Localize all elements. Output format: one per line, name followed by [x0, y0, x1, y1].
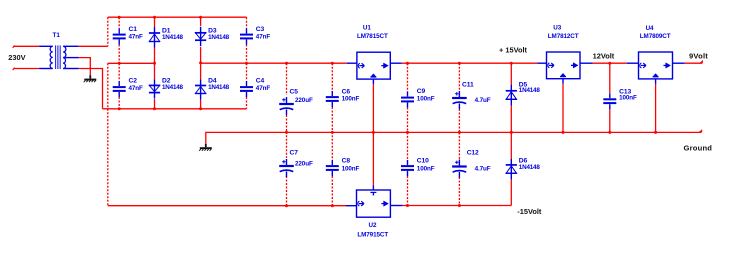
svg-text:1N4148: 1N4148	[162, 84, 184, 91]
diode D2 1N4148	[149, 78, 184, 99]
wire D3 top lead	[200, 17, 202, 26]
wire left vertical to U2 rail	[107, 63, 109, 205]
wire positive rail to U1	[201, 62, 347, 64]
svg-text:C9: C9	[417, 88, 426, 95]
svg-text:100nF: 100nF	[342, 95, 360, 102]
wire C2 bottom lead	[118, 97, 120, 109]
wire D3 bottom lead	[200, 47, 202, 63]
wire 230V line top	[13, 45, 39, 47]
capacitor C10 100nF	[401, 157, 435, 176]
wire D4 bottom lead	[200, 100, 202, 109]
svg-text:C12: C12	[467, 150, 479, 157]
wire U2 gnd pin	[372, 132, 374, 185]
wire D6 top lead	[510, 132, 512, 159]
junction +15V rail / C9	[406, 62, 409, 65]
svg-text:C8: C8	[342, 157, 351, 164]
svg-text:U2: U2	[369, 222, 377, 229]
transformer T1	[39, 32, 79, 69]
wire center tap	[79, 58, 91, 76]
junction positive rail / C5	[285, 62, 288, 65]
capacitor C5 220uF (electrolytic)	[279, 89, 313, 116]
junction ground rail / D5-D6	[510, 131, 513, 134]
junction positive rail / C3-C4	[245, 62, 248, 65]
capacitor C8 100nF	[326, 157, 360, 176]
wire C5 bottom lead	[286, 115, 288, 132]
wire left vertical upper	[107, 17, 109, 46]
svg-text:LM7809CT: LM7809CT	[640, 33, 671, 40]
voltage regulator U3 LM7812CT	[547, 52, 581, 79]
capacitor C6 100nF	[326, 88, 360, 107]
capacitor C4 47nF	[240, 78, 270, 97]
svg-text:47nF: 47nF	[129, 33, 144, 40]
junction top rail / D3	[199, 16, 202, 19]
wire C11 bottom lead	[458, 109, 460, 132]
svg-text:1N4148: 1N4148	[208, 84, 230, 91]
svg-text:1N4148: 1N4148	[162, 34, 184, 41]
svg-text:4.7uF: 4.7uF	[475, 165, 491, 172]
wire U1 input stub	[347, 62, 357, 64]
wire D5 top lead	[510, 63, 512, 85]
wire C3 bottom lead	[246, 45, 248, 64]
wire C8 top lead	[331, 132, 333, 160]
wire D6 bottom lead	[510, 179, 512, 206]
wire C7 top lead	[286, 132, 288, 158]
wire mid rail left (negative node)	[108, 62, 155, 64]
svg-text:C1: C1	[129, 26, 138, 33]
wire D1 bottom lead	[154, 48, 156, 64]
wire ground rail	[206, 132, 702, 143]
svg-text:LM7815CT: LM7815CT	[357, 33, 388, 40]
wire C13 top lead	[609, 63, 611, 93]
junction mid-left / C1-C2	[118, 62, 121, 65]
capacitor C13 100nF	[603, 88, 637, 109]
svg-text:C5: C5	[290, 89, 299, 96]
junction positive rail / C6	[331, 62, 334, 65]
ground (main rail)	[199, 144, 212, 151]
wire U4 gnd pin	[655, 84, 657, 132]
svg-text:C11: C11	[462, 82, 474, 89]
svg-text:C3: C3	[256, 26, 265, 33]
wire D5 bottom lead	[510, 105, 512, 132]
wire U4 input stub	[627, 62, 639, 64]
junction ground rail / C11-C12	[458, 131, 461, 134]
wire C10 top lead	[407, 132, 409, 160]
svg-text:4.7uF: 4.7uF	[475, 97, 491, 104]
diode D4 1N4148	[195, 78, 230, 100]
wire +15V rail	[402, 62, 538, 64]
wire U1 gnd pin	[372, 84, 374, 132]
wire U3 input stub	[537, 62, 546, 64]
svg-text:1N4148: 1N4148	[519, 164, 541, 171]
junction top rail / C1	[118, 16, 121, 19]
svg-text:230V: 230V	[8, 53, 25, 62]
voltage regulator U1 LM7815CT	[357, 52, 390, 79]
junction -V rail / C8	[331, 204, 334, 207]
wire C4 top lead	[246, 63, 248, 81]
voltage regulator U2 LM7915CT	[357, 190, 391, 217]
capacitor C12 4.7uF (electrolytic)	[452, 150, 491, 178]
svg-text:Ground: Ground	[684, 143, 713, 152]
svg-text:9Volt: 9Volt	[689, 52, 708, 61]
junction -15V rail / C10	[406, 204, 409, 207]
junction ground rail / C5-C7	[285, 131, 288, 134]
wire D1 top lead	[154, 17, 156, 27]
voltage regulator U4 LM7809CT	[639, 52, 673, 79]
wire C9 top lead	[407, 63, 409, 91]
wire C1 top lead	[118, 17, 120, 28]
capacitor C11 4.7uF (electrolytic)	[452, 82, 491, 110]
junction 12V rail / C13	[608, 62, 611, 65]
junction ground rail / C6-C8	[331, 131, 334, 134]
wire top AC rail	[108, 16, 247, 18]
svg-text:100nF: 100nF	[342, 165, 360, 172]
junction +15V rail / D5	[510, 62, 513, 65]
svg-text:U1: U1	[363, 25, 371, 32]
wire C3 top lead	[246, 17, 248, 28]
wire secondary bottom lead	[79, 69, 103, 109]
junction -15V rail / C12	[458, 204, 461, 207]
diode D1 1N4148	[149, 27, 184, 48]
svg-text:47nF: 47nF	[256, 33, 271, 40]
wire 9V output	[685, 62, 703, 64]
junction ground rail / U3 gnd	[562, 131, 565, 134]
wire C13 bottom lead	[609, 109, 611, 132]
svg-text:100nF: 100nF	[619, 95, 637, 102]
junction bottom rail / C2	[118, 107, 121, 110]
wire C10 bottom lead	[407, 176, 409, 206]
junction bottom rail / D2	[153, 107, 156, 110]
svg-text:12Volt: 12Volt	[593, 51, 615, 60]
wire U3 gnd stub	[562, 79, 564, 84]
junction mid-right / D3-D4	[199, 61, 202, 64]
svg-text:-15Volt: -15Volt	[517, 207, 542, 216]
svg-text:U4: U4	[646, 25, 654, 32]
wire C8 bottom lead	[331, 176, 333, 206]
wire C12 top lead	[458, 132, 460, 160]
svg-text:47nF: 47nF	[129, 85, 144, 92]
diode D3 1N4148	[195, 27, 230, 46]
svg-text:+ 15Volt: + 15Volt	[499, 45, 528, 54]
wire C7 bottom lead	[286, 176, 288, 206]
svg-text:C2: C2	[129, 78, 138, 85]
wire C12 bottom lead	[458, 177, 460, 206]
diode D6 1N4148	[506, 157, 541, 179]
wire secondary top lead	[79, 45, 108, 47]
svg-text:47nF: 47nF	[256, 85, 271, 92]
wire C6 bottom lead	[331, 107, 333, 132]
junction ground rail / C13	[608, 131, 611, 134]
junction bottom rail / D4	[199, 107, 202, 110]
svg-text:1N4148: 1N4148	[208, 34, 230, 41]
svg-text:C7: C7	[290, 150, 299, 157]
svg-text:T1: T1	[53, 32, 61, 39]
wire U2 input stub	[346, 205, 357, 207]
wire U4 output stub	[673, 62, 685, 64]
diode D5 1N4148	[506, 81, 541, 105]
capacitor C2 47nF	[113, 78, 143, 97]
wire C11 top lead	[458, 63, 460, 92]
junction ground rail / U1/U2 gnd	[372, 131, 375, 134]
svg-text:100nF: 100nF	[417, 165, 435, 172]
wire C6 top lead	[331, 63, 333, 91]
svg-text:U3: U3	[553, 25, 561, 32]
wire 230V line bottom	[13, 68, 39, 70]
svg-text:LM7812CT: LM7812CT	[548, 33, 579, 40]
wire bottom AC rail	[103, 108, 247, 110]
wire C5 top lead	[286, 63, 288, 95]
capacitor C1 47nF	[113, 26, 143, 45]
ground (center tap)	[84, 75, 97, 82]
junction mid-left / D1-D2	[153, 62, 156, 65]
wire U3 gnd pin	[562, 84, 564, 133]
wire U2 gnd pin stub	[372, 185, 374, 190]
wire C4 bottom lead	[246, 97, 248, 109]
wire D4 top lead	[200, 63, 202, 79]
junction ground rail / C9-C10	[406, 131, 409, 134]
wire -V rail to U2	[108, 205, 346, 207]
wire -15V rail	[403, 205, 512, 207]
wire C9 bottom lead	[407, 108, 409, 132]
wire U3 output stub	[580, 62, 593, 64]
svg-text:C4: C4	[256, 78, 265, 85]
svg-text:LM7915CT: LM7915CT	[357, 231, 388, 238]
svg-text:C6: C6	[342, 88, 351, 95]
wire C1 bottom lead	[118, 45, 120, 64]
junction -V rail / C7	[285, 204, 288, 207]
junction ground rail / U4 gnd	[654, 131, 657, 134]
junction top rail / D1	[153, 16, 156, 19]
svg-text:220uF: 220uF	[295, 97, 313, 104]
wire C2 top lead	[118, 63, 120, 81]
junction +15V rail / C11	[458, 62, 461, 65]
wire 12V rail	[593, 62, 627, 64]
capacitor C9 100nF	[401, 88, 435, 108]
wire U4 gnd stub	[655, 79, 657, 84]
svg-text:C10: C10	[417, 157, 429, 164]
svg-text:220uF: 220uF	[295, 160, 313, 167]
svg-text:1N4148: 1N4148	[519, 87, 541, 94]
capacitor C7 220uF (electrolytic)	[279, 150, 313, 178]
wire U2 output stub	[390, 205, 402, 207]
capacitor C3 47nF	[240, 26, 270, 45]
wire D2 bottom lead	[154, 99, 156, 109]
wire U1 output stub	[390, 62, 401, 64]
wire D2 top lead	[154, 63, 156, 79]
svg-text:100nF: 100nF	[417, 96, 435, 103]
wire U1 gnd pin stub	[372, 79, 374, 84]
